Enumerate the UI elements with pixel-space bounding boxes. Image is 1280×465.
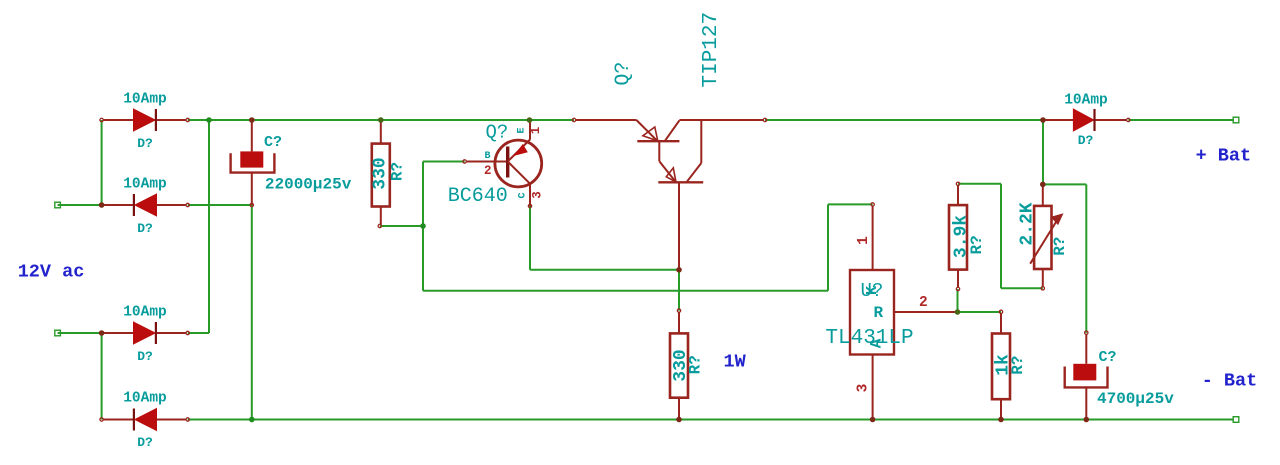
svg-text:+ Bat: + Bat (1196, 146, 1252, 167)
svg-text:2.2K: 2.2K (1017, 202, 1037, 245)
svg-text:3: 3 (856, 384, 872, 393)
svg-text:BC640: BC640 (448, 185, 508, 208)
svg-text:R?: R? (968, 235, 986, 254)
svg-text:A: A (867, 338, 885, 348)
svg-text:R?: R? (389, 162, 407, 181)
svg-text:1W: 1W (724, 352, 747, 373)
svg-text:B: B (485, 151, 491, 162)
svg-text:4700µ25v: 4700µ25v (1097, 390, 1174, 408)
svg-text:K: K (864, 286, 881, 295)
svg-text:1: 1 (529, 127, 543, 135)
svg-text:C?: C? (1099, 349, 1117, 366)
svg-text:Q?: Q? (486, 122, 509, 144)
svg-text:D?: D? (137, 221, 153, 236)
svg-text:R?: R? (1009, 355, 1027, 374)
svg-text:C?: C? (264, 134, 282, 151)
svg-text:R?: R? (686, 355, 704, 374)
svg-text:R?: R? (1051, 237, 1069, 256)
svg-text:3: 3 (531, 191, 545, 199)
svg-text:10Amp: 10Amp (123, 391, 167, 407)
svg-text:D?: D? (137, 136, 153, 151)
svg-text:R: R (874, 304, 884, 322)
svg-text:10Amp: 10Amp (123, 177, 167, 193)
svg-text:Q?: Q? (612, 62, 635, 86)
svg-text:D?: D? (1078, 133, 1094, 148)
svg-text:10Amp: 10Amp (123, 305, 167, 321)
svg-text:12V ac: 12V ac (18, 262, 85, 283)
svg-text:1: 1 (856, 236, 872, 245)
svg-text:TIP127: TIP127 (700, 12, 723, 88)
svg-text:22000µ25v: 22000µ25v (265, 176, 352, 194)
svg-text:C: C (518, 192, 529, 198)
svg-text:D?: D? (137, 349, 153, 364)
svg-text:10Amp: 10Amp (1064, 93, 1108, 109)
svg-text:- Bat: - Bat (1202, 371, 1258, 392)
svg-text:2: 2 (919, 295, 928, 311)
svg-text:330: 330 (370, 157, 390, 189)
svg-text:2: 2 (484, 164, 492, 178)
svg-text:10Amp: 10Amp (123, 92, 167, 108)
svg-text:D?: D? (137, 435, 153, 450)
svg-text:E: E (517, 127, 528, 133)
